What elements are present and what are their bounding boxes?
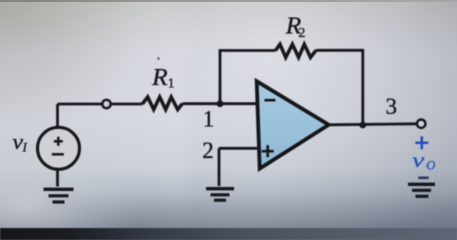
svg-text:2: 2 <box>298 26 305 41</box>
svg-text:2: 2 <box>202 138 214 163</box>
svg-text:I: I <box>22 139 28 154</box>
svg-text:R: R <box>151 65 168 91</box>
svg-text:v: v <box>412 148 425 172</box>
svg-text:1: 1 <box>203 106 215 131</box>
svg-text:1: 1 <box>168 77 175 92</box>
svg-text:O: O <box>426 158 435 172</box>
svg-text:3: 3 <box>386 94 398 119</box>
